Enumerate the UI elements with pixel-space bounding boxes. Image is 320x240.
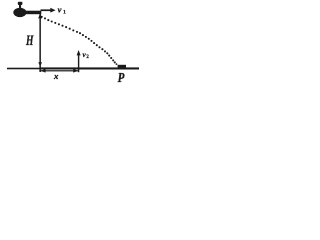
svg-text:P: P — [118, 71, 125, 86]
velocity arrow v2 — [77, 50, 81, 72]
label v1 — [58, 4, 67, 15]
label H — [25, 33, 34, 49]
height dimension line H (pole) — [38, 13, 42, 72]
svg-text:H: H — [25, 33, 34, 49]
svg-text:1: 1 — [63, 9, 66, 15]
label x — [53, 71, 59, 81]
launcher device on pole top — [13, 2, 41, 17]
velocity arrow v1 — [41, 8, 56, 13]
label v2 — [83, 51, 90, 60]
label P — [118, 71, 125, 86]
svg-text:x: x — [53, 71, 59, 81]
svg-text:v: v — [58, 4, 62, 14]
distance dimension line x — [40, 69, 78, 73]
block at landing point P — [118, 65, 126, 69]
ground line — [7, 67, 139, 69]
trajectory dots (projectile path) — [41, 16, 118, 65]
